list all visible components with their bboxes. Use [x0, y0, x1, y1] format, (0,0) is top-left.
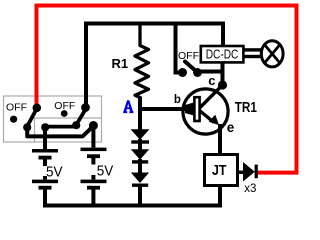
svg-text:5V: 5V [46, 164, 63, 181]
svg-text:5V: 5V [97, 163, 114, 180]
svg-text:c: c [208, 73, 215, 88]
svg-text:DC-DC: DC-DC [206, 47, 239, 61]
svg-text:OFF: OFF [178, 50, 199, 62]
svg-text:OFF: OFF [54, 100, 75, 112]
svg-text:TR1: TR1 [235, 99, 257, 115]
svg-text:e: e [227, 120, 235, 135]
svg-text:OFF: OFF [6, 102, 27, 114]
svg-text:x3: x3 [244, 183, 256, 195]
svg-text:R1: R1 [112, 56, 129, 71]
svg-text:b: b [174, 94, 181, 106]
svg-text:JT: JT [212, 162, 227, 178]
